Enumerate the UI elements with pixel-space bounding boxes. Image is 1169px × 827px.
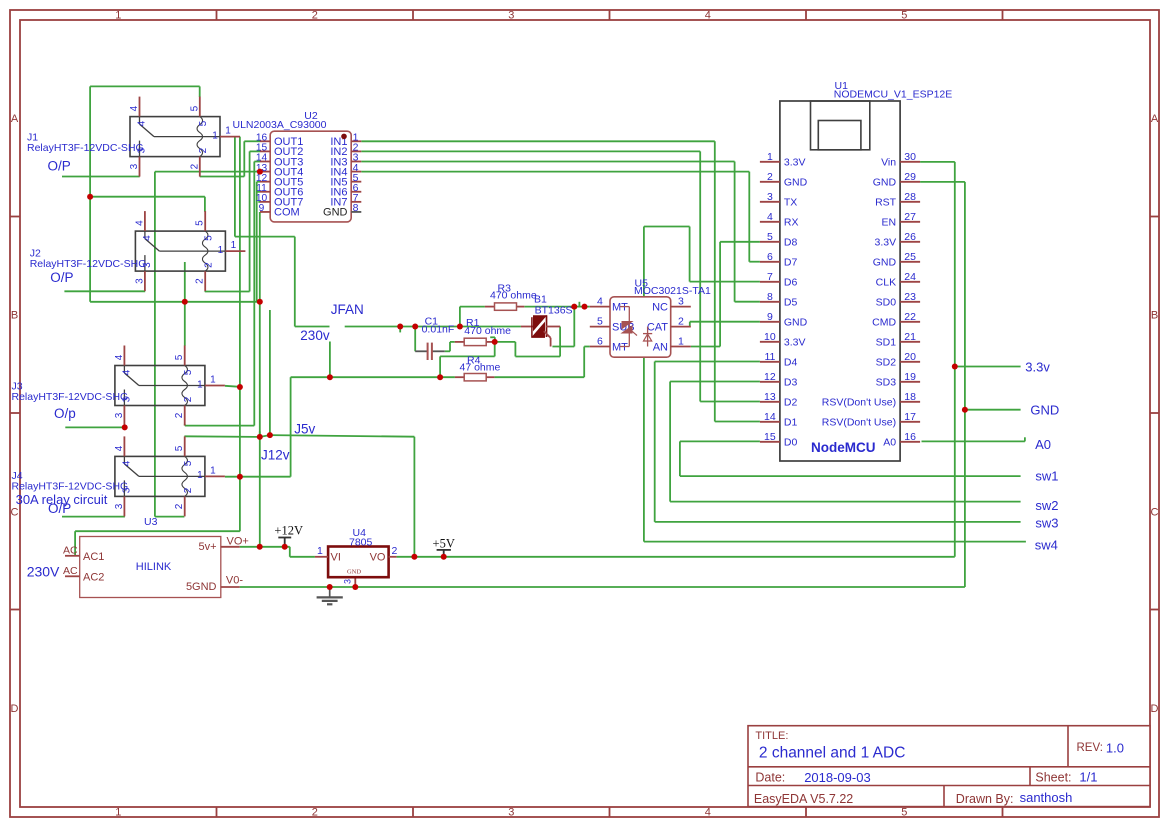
svg-text:RelayHT3F-12VDC-SHG: RelayHT3F-12VDC-SHG [27,142,144,154]
svg-text:MT: MT [612,341,628,353]
net label 230V [27,563,60,579]
svg-text:B: B [11,310,18,322]
svg-text:GND: GND [1030,403,1059,418]
wire stub at x400 [399,327,401,333]
net label JFAN [331,302,364,317]
wire IN3 to D5 [361,162,760,302]
svg-text:5: 5 [195,220,206,226]
ground [317,587,343,604]
svg-text:D: D [11,703,19,715]
junction [327,584,333,590]
wire OUT4 to J4-pin2 [155,172,260,517]
junction [441,554,447,560]
svg-text:O/P: O/P [48,159,71,174]
resistor R3 [485,282,537,310]
junction [492,339,498,345]
svg-text:GND: GND [323,207,348,219]
relay J3 [12,346,225,426]
svg-text:20: 20 [904,351,916,363]
svg-text:1: 1 [678,335,684,347]
note 30A relay circuit [16,492,108,507]
relay J2 [30,211,246,291]
svg-text:1: 1 [218,245,224,256]
wire 230v label stem [329,342,331,378]
net label sw4 [1035,538,1058,553]
svg-text:3: 3 [114,412,125,418]
svg-text:5: 5 [174,354,185,360]
svg-text:J5v: J5v [294,421,315,436]
svg-text:D4: D4 [784,357,798,369]
wire U2-12 stub down [257,182,260,302]
svg-text:CMD: CMD [872,317,896,329]
IC U1 NODEMCU_V1_ESP12E [760,80,952,461]
capacitor C1 [415,316,454,360]
wire 5v+ rail [240,547,315,557]
wire U2-15 OUT2 to J2-pin2 [205,151,260,291]
net label A0 [1035,437,1051,452]
optocoupler U5 MOC3021S-TA1 [590,278,711,358]
wire stub above J5v dot [259,431,261,437]
svg-text:1: 1 [212,130,218,141]
svg-text:Vin: Vin [881,157,896,169]
svg-text:+5V: +5V [433,536,455,550]
wire R1 dot down to R4 [440,342,495,377]
svg-text:BT136S: BT136S [535,304,573,316]
svg-text:2: 2 [392,545,398,557]
svg-text:sw4: sw4 [1035,538,1058,553]
svg-text:21: 21 [904,331,916,343]
svg-text:17: 17 [904,411,916,423]
svg-text:GND: GND [784,177,808,189]
net label O/P J1 [48,159,71,174]
svg-text:5: 5 [901,807,907,819]
svg-text:4: 4 [705,807,711,819]
svg-text:4: 4 [597,295,603,307]
wire J1-pin5 to left rail [90,86,200,301]
svg-text:12: 12 [764,371,776,383]
relay J4 [12,436,225,516]
svg-text:TITLE:: TITLE: [755,730,788,742]
wire 230v row [345,326,521,328]
junction [257,299,263,305]
svg-text:VO+: VO+ [227,535,249,547]
svg-text:D: D [1151,703,1159,715]
wire J4-pin1 to 230v net [225,476,291,478]
svg-text:santhosh: santhosh [1020,790,1073,805]
svg-text:D1: D1 [784,417,798,429]
svg-text:23: 23 [904,291,916,303]
junction [411,554,417,560]
junction [237,384,243,390]
svg-text:1: 1 [767,151,773,163]
svg-text:D3: D3 [784,377,798,389]
junction [267,432,273,438]
svg-text:18: 18 [904,391,916,403]
svg-text:RSV(Don't Use): RSV(Don't Use) [822,397,896,409]
svg-text:ULN2003A_C93000: ULN2003A_C93000 [233,119,327,131]
svg-text:D0: D0 [784,437,798,449]
svg-text:B: B [1151,310,1158,322]
svg-text:47 ohme: 47 ohme [460,362,501,374]
relay J1 [27,97,240,177]
svg-text:RSV(Don't Use): RSV(Don't Use) [822,417,896,429]
svg-text:4: 4 [114,445,125,451]
svg-text:D2: D2 [784,397,798,409]
resistor R4 [455,355,501,381]
svg-text:GND: GND [873,177,897,189]
junction [327,374,333,380]
svg-text:15: 15 [764,431,776,443]
wire D3 to sw2 [670,382,1021,502]
svg-text:GND: GND [347,568,361,575]
svg-text:CAT: CAT [647,321,668,333]
wire J2 inner stub / J3-pin5 drop [184,262,186,346]
svg-text:3: 3 [134,278,145,284]
wire GND rail [240,182,965,587]
wire GND label [965,409,1021,411]
svg-text:5GND: 5GND [186,581,217,593]
net label sw2 [1035,498,1058,513]
wire D4 to sw3 [655,362,1021,522]
svg-text:4: 4 [134,220,145,226]
svg-text:AC1: AC1 [83,551,104,563]
wire R4 row horizontal [291,376,455,378]
svg-text:29: 29 [904,171,916,183]
svg-text:VO: VO [370,551,386,563]
svg-text:9: 9 [767,311,773,323]
net label J12v [261,448,290,463]
svg-text:1: 1 [317,545,323,557]
svg-text:MT: MT [612,301,628,313]
svg-text:SD1: SD1 [876,337,897,349]
svg-text:13: 13 [764,391,776,403]
svg-text:AC: AC [63,565,78,577]
svg-text:GND: GND [784,317,808,329]
wire stub near U5-4 [578,302,580,307]
svg-text:U3: U3 [144,516,158,528]
wire +5V rail [397,162,955,557]
svg-text:16: 16 [904,431,916,443]
svg-text:0.01nF: 0.01nF [422,323,455,335]
svg-text:28: 28 [904,191,916,203]
svg-text:1: 1 [210,465,216,476]
power flag +5V [433,536,455,556]
svg-text:1: 1 [115,10,121,22]
module U3 HILINK [63,516,249,598]
svg-text:2 channel and 1 ADC: 2 channel and 1 ADC [759,745,906,762]
svg-text:2: 2 [189,163,200,169]
wire J5v [184,435,414,557]
svg-text:EasyEDA V5.7.22: EasyEDA V5.7.22 [754,792,853,806]
svg-text:5: 5 [189,105,200,111]
svg-text:2: 2 [312,10,318,22]
svg-text:19: 19 [904,371,916,383]
svg-text:4: 4 [142,235,153,241]
svg-text:SD2: SD2 [876,357,897,369]
net label O/p J3 [54,406,76,421]
wire R1 out to MT2 [495,327,560,357]
svg-text:2: 2 [195,278,206,284]
svg-text:1: 1 [197,379,203,390]
svg-text:5: 5 [901,10,907,22]
junction [412,324,418,330]
wire R3 out to U5-4 [524,306,590,308]
svg-text:NodeMCU: NodeMCU [811,440,876,455]
svg-text:2: 2 [678,315,684,327]
svg-text:5: 5 [203,235,214,241]
net label O/P J2 [50,270,73,285]
svg-text:470 ohme: 470 ohme [464,325,511,337]
svg-text:1: 1 [231,240,237,251]
svg-text:D7: D7 [784,257,798,269]
svg-text:2: 2 [198,147,209,153]
wire IN1 to D1 [361,141,760,421]
svg-text:11: 11 [764,351,775,363]
junction [122,424,128,430]
svg-text:4: 4 [129,105,140,111]
svg-text:1: 1 [197,470,203,481]
svg-text:SD3: SD3 [876,377,897,389]
svg-text:3: 3 [508,807,514,819]
svg-text:1.0: 1.0 [1106,740,1124,755]
svg-text:7: 7 [767,271,773,283]
svg-text:30: 30 [904,151,916,163]
net label J5v [294,421,315,436]
wire 3.3v [955,366,1021,368]
svg-text:RelayHT3F-12VDC-SHG: RelayHT3F-12VDC-SHG [12,391,129,403]
wire O/P J4 [62,516,125,518]
wire C1 to R1 [445,342,455,351]
svg-text:A: A [11,113,19,125]
svg-text:3: 3 [129,163,140,169]
junction [397,324,403,330]
net label O/P J4 [48,501,71,516]
svg-text:5: 5 [183,460,194,466]
svg-text:D6: D6 [784,277,798,289]
svg-text:NC: NC [652,301,668,313]
wire R3 riser [460,307,485,327]
svg-text:Sheet:: Sheet: [1035,771,1071,785]
svg-text:470 ohme: 470 ohme [490,289,537,301]
junction [257,544,263,550]
svg-text:4: 4 [767,211,773,223]
svg-text:8: 8 [353,202,359,214]
svg-text:230v: 230v [300,328,330,343]
wire U2-10 hook [258,201,260,203]
svg-text:2: 2 [183,487,194,493]
svg-text:2: 2 [767,171,773,183]
svg-text:24: 24 [904,271,916,283]
svg-text:GND: GND [873,257,897,269]
wire U4 gnd pin drop [354,577,356,587]
wire U5-CAT to GND9 [690,322,760,327]
svg-text:D8: D8 [784,237,798,249]
svg-text:4: 4 [114,354,125,360]
svg-text:C: C [1151,506,1159,518]
svg-text:+12V: +12V [274,524,303,538]
svg-text:A: A [1151,113,1159,125]
wire sw4 row [644,541,1026,543]
svg-text:sw2: sw2 [1035,498,1058,513]
svg-text:1/1: 1/1 [1079,770,1097,785]
svg-text:30A relay circuit: 30A relay circuit [16,492,108,507]
svg-text:4: 4 [705,10,711,22]
resistor R1 [455,317,511,346]
svg-text:REV:: REV: [1077,742,1103,754]
wire O/P J2 [64,290,145,292]
wire JFAN from J1-pin1 [235,137,330,327]
wire 230v long rail from J1-pin1 [75,137,240,556]
svg-text:3: 3 [343,579,353,584]
svg-text:HILINK: HILINK [136,561,172,573]
svg-text:TX: TX [784,197,797,209]
svg-text:6: 6 [767,251,773,263]
svg-text:10: 10 [764,331,776,343]
svg-text:6: 6 [597,335,603,347]
triac B1 BT136S [521,294,573,347]
junction [237,474,243,480]
svg-text:RelayHT3F-12VDC-SHG: RelayHT3F-12VDC-SHG [12,481,129,493]
svg-text:J12v: J12v [261,448,290,463]
svg-text:JFAN: JFAN [331,302,364,317]
svg-text:3.3v: 3.3v [1025,359,1050,374]
wire gate drop [552,307,574,347]
svg-text:27: 27 [904,211,916,223]
svg-text:2: 2 [174,503,185,509]
IC U2 ULN2003A [233,110,362,222]
wire D0 to sw1 [680,441,1021,476]
wire COM vertical [259,212,261,547]
svg-text:SD0: SD0 [876,297,897,309]
svg-text:2018-09-03: 2018-09-03 [804,770,871,785]
power flag +12V [274,524,303,547]
svg-text:RelayHT3F-12VDC-SHG: RelayHT3F-12VDC-SHG [30,258,147,270]
wire U2-14 OUT3 to J3-pin2 [185,162,260,426]
svg-text:2: 2 [174,412,185,418]
svg-text:VI: VI [331,551,341,563]
wire U5-AN to D8 [691,242,760,347]
wire C1 drop [414,327,416,352]
junction [571,304,577,310]
svg-text:5: 5 [198,120,209,126]
svg-text:O/p: O/p [54,406,76,421]
svg-text:AN: AN [653,341,668,353]
net label 3.3v [1025,359,1050,374]
svg-text:3.3V: 3.3V [784,157,806,169]
svg-text:4: 4 [121,369,132,375]
wire D6 to sw4 [644,227,760,542]
svg-text:5v+: 5v+ [198,541,216,553]
junction [962,407,968,413]
svg-text:7805: 7805 [349,537,373,549]
junction [182,299,188,305]
svg-text:1: 1 [225,126,231,137]
svg-text:22: 22 [904,311,916,323]
svg-text:EN: EN [882,217,897,229]
svg-text:2: 2 [183,396,194,402]
junction [457,324,463,330]
net label sw1 [1035,469,1058,484]
junction [257,169,263,175]
svg-text:MOC3021S-TA1: MOC3021S-TA1 [634,285,711,297]
svg-text:NODEMCU_V1_ESP12E: NODEMCU_V1_ESP12E [834,89,952,101]
junction [282,544,288,550]
svg-text:4: 4 [137,120,148,126]
svg-text:AC2: AC2 [83,572,104,584]
svg-text:Drawn By:: Drawn By: [956,792,1014,806]
svg-text:C: C [11,506,19,518]
svg-text:1: 1 [115,807,121,819]
svg-text:5: 5 [183,369,194,375]
junction [437,374,443,380]
svg-text:CLK: CLK [876,277,896,289]
svg-text:3.3V: 3.3V [784,337,806,349]
svg-text:D5: D5 [784,297,798,309]
svg-text:5: 5 [597,315,603,327]
svg-text:A0: A0 [1035,437,1051,452]
junction [352,584,358,590]
svg-text:Date:: Date: [755,771,785,785]
svg-text:14: 14 [764,411,776,423]
svg-text:3: 3 [114,503,125,509]
junction [582,304,588,310]
svg-text:COM: COM [274,207,300,219]
svg-text:26: 26 [904,231,916,243]
net label GND [1030,403,1059,418]
svg-text:AC: AC [63,545,78,557]
wire U2-11 hook [257,191,260,193]
svg-text:2: 2 [312,807,318,819]
svg-text:A0: A0 [883,437,896,449]
junction [952,364,958,370]
regulator U4 7805 [315,527,398,584]
svg-text:3.3V: 3.3V [874,237,896,249]
svg-text:V0-: V0- [226,574,243,586]
wire A0 [922,437,1025,441]
svg-text:sw3: sw3 [1035,516,1058,531]
svg-text:RX: RX [784,217,799,229]
wire J3-pin1 to 230v net [225,386,240,387]
svg-text:3: 3 [678,295,684,307]
wire rail y302 to COM [90,301,260,303]
svg-text:25: 25 [904,251,916,263]
svg-text:O/P: O/P [50,270,73,285]
wire IN2 to D2 [361,151,760,401]
wire J5v riser x270 [269,310,271,435]
net label sw3 [1035,516,1058,531]
svg-text:4: 4 [121,460,132,466]
wire 230v vertical x290 [290,377,292,477]
svg-text:2: 2 [203,262,214,268]
svg-text:5: 5 [767,231,773,243]
wire O/p J3 [65,426,124,428]
svg-text:9: 9 [259,203,265,214]
junction [257,434,263,440]
svg-text:3: 3 [767,191,773,203]
svg-text:8: 8 [767,291,773,303]
net label 230v [300,328,330,343]
wire O/P J1 [62,176,140,178]
svg-text:230V: 230V [27,563,60,579]
svg-text:1: 1 [210,375,216,386]
svg-text:3: 3 [508,10,514,22]
wire left rail to J2-pin5 [90,197,205,212]
wire U2-16 OUT1 to J1-pin2 [200,141,260,176]
wire R4 out to U5-6 [494,347,589,378]
junction [87,194,93,200]
svg-text:5: 5 [174,445,185,451]
svg-text:RST: RST [875,197,897,209]
